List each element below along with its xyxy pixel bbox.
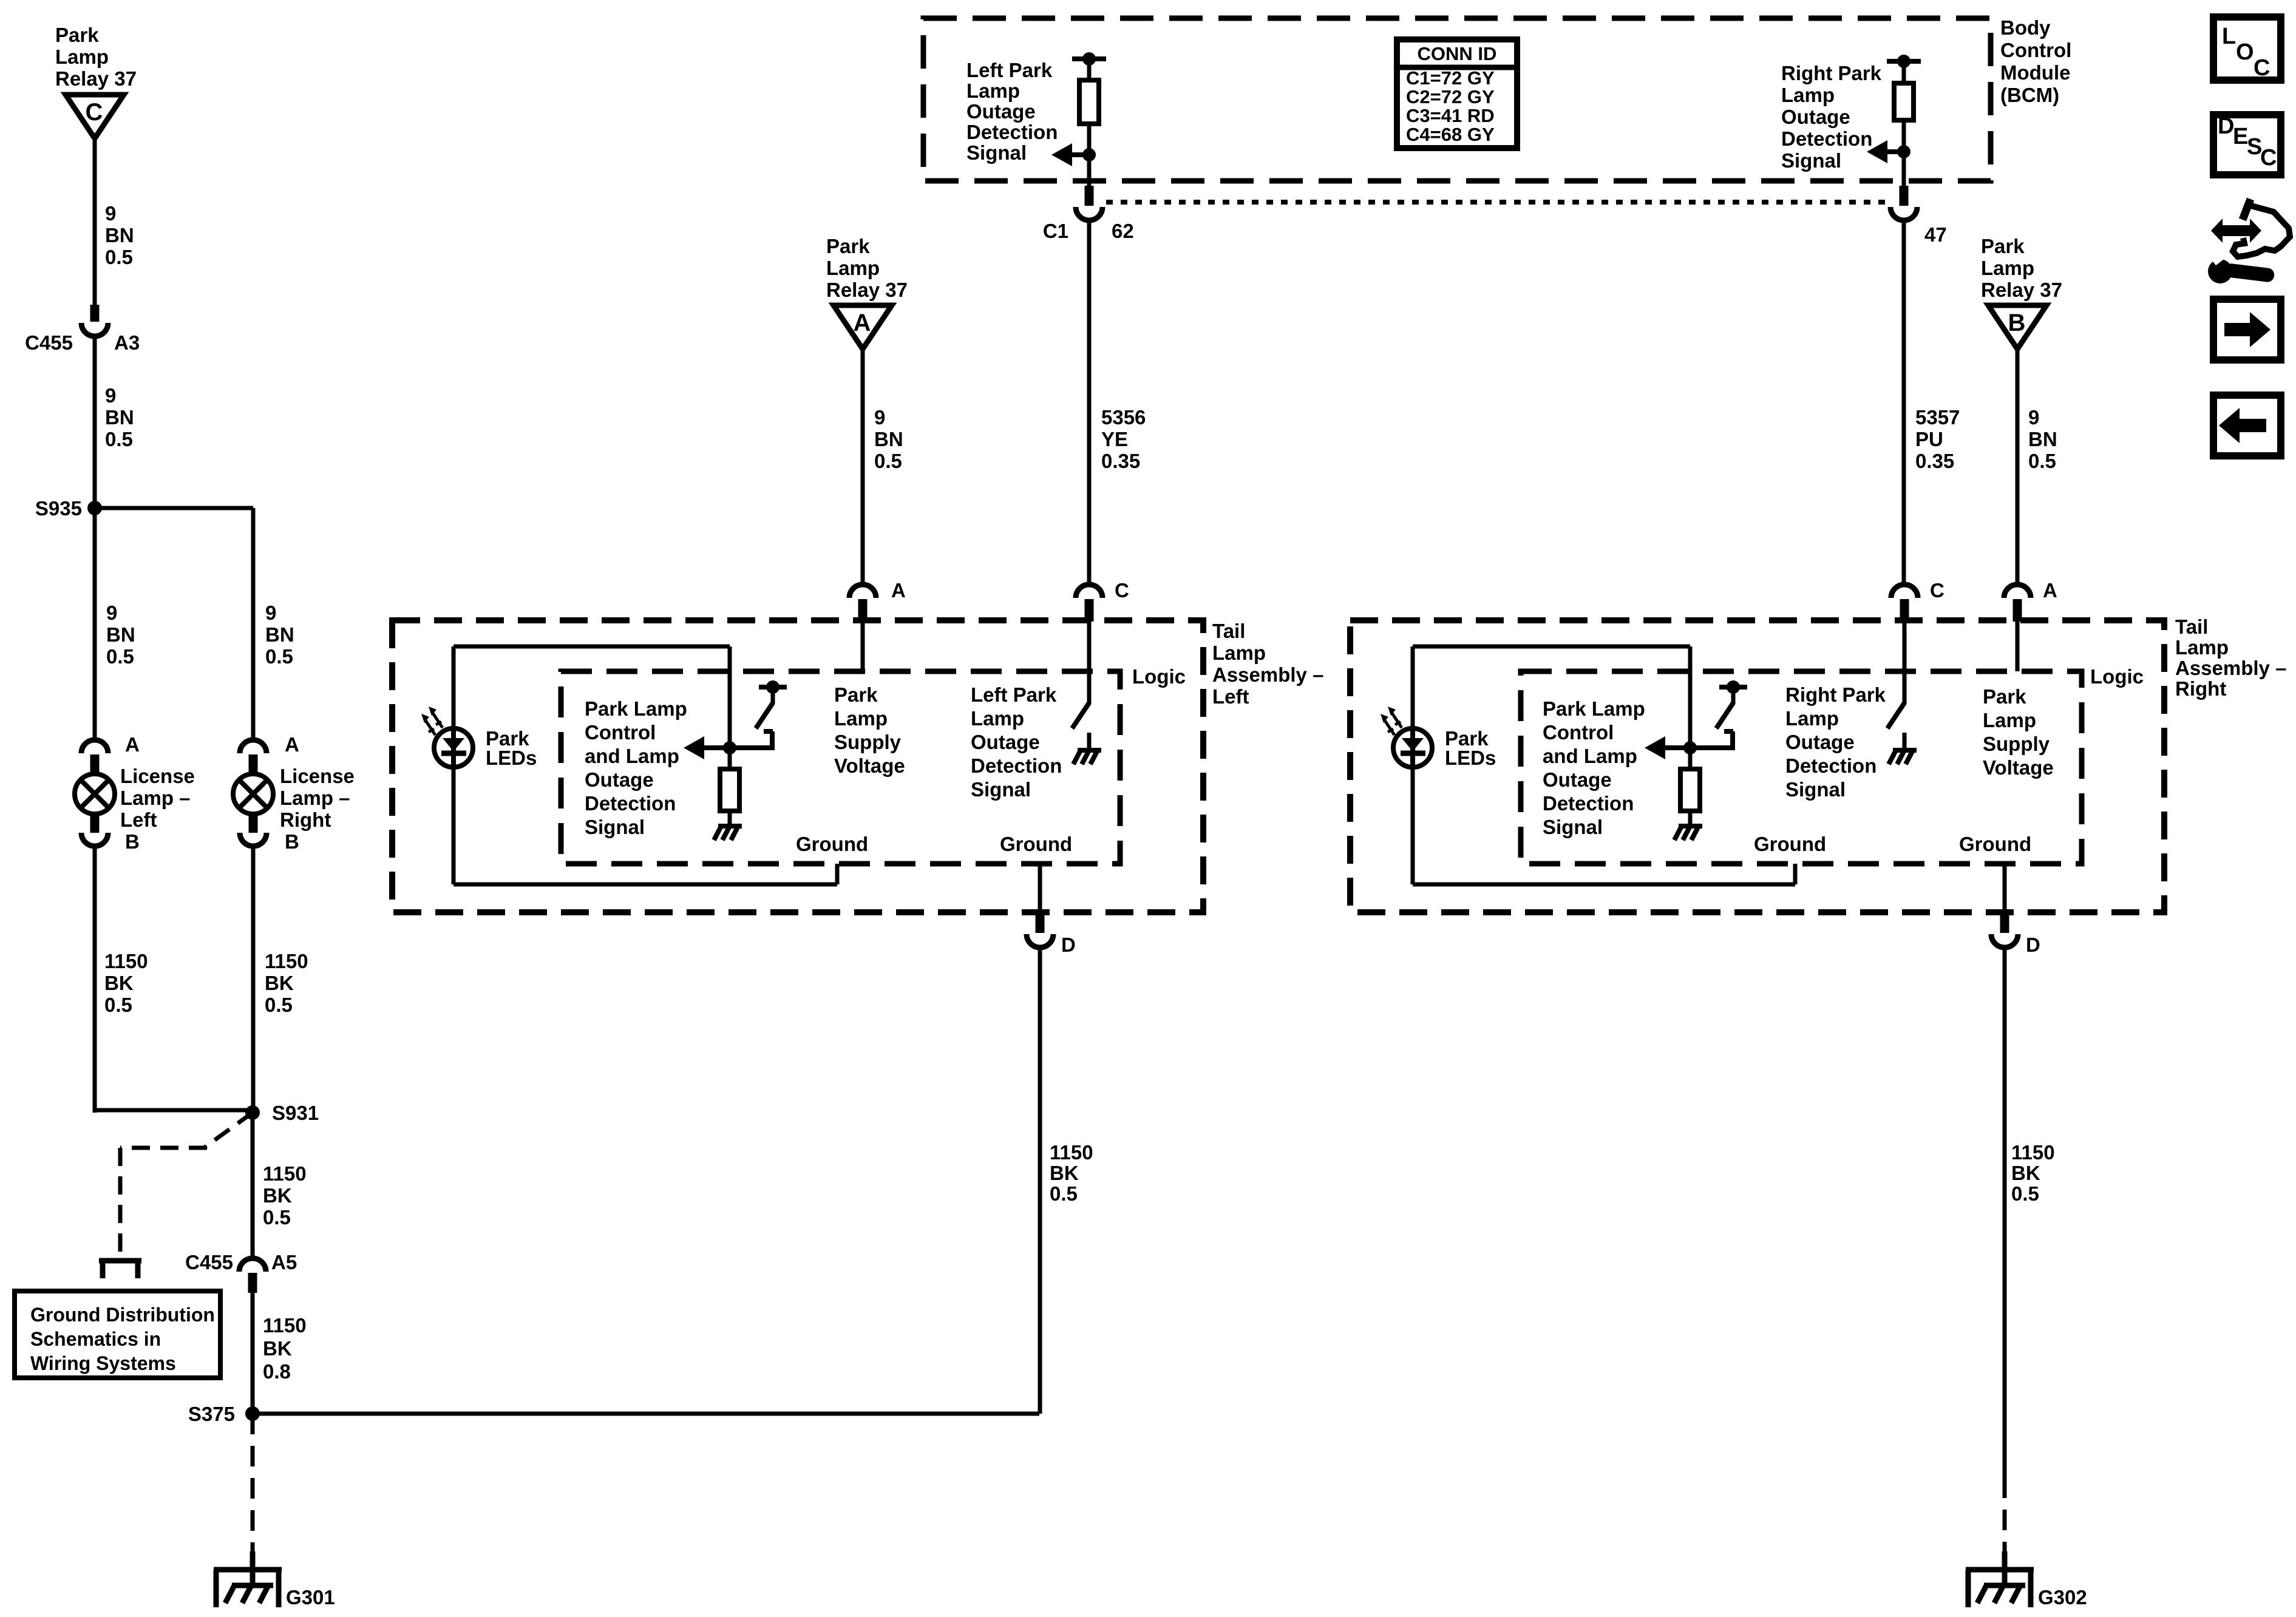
svg-text:BN: BN — [106, 623, 135, 646]
svg-text:BN: BN — [874, 428, 903, 450]
svg-text:Right: Right — [280, 808, 331, 831]
svg-text:Lamp: Lamp — [834, 707, 888, 730]
svg-text:B: B — [285, 830, 299, 853]
svg-text:Ground: Ground — [1959, 833, 2031, 855]
svg-text:Relay 37: Relay 37 — [55, 67, 137, 90]
svg-text:(BCM): (BCM) — [2000, 84, 2059, 106]
svg-text:C455: C455 — [25, 331, 73, 354]
svg-text:Left: Left — [1212, 685, 1249, 708]
svg-text:0.5: 0.5 — [2028, 450, 2056, 472]
svg-text:Control: Control — [1543, 721, 1614, 744]
svg-text:Left: Left — [120, 808, 157, 831]
svg-text:1150: 1150 — [263, 1162, 307, 1185]
svg-text:0.5: 0.5 — [104, 994, 132, 1016]
svg-text:BN: BN — [105, 406, 134, 429]
svg-text:Relay 37: Relay 37 — [826, 279, 908, 301]
svg-text:Lamp: Lamp — [826, 257, 880, 279]
svg-text:S375: S375 — [188, 1403, 235, 1425]
svg-text:A: A — [285, 733, 299, 756]
svg-text:C1: C1 — [1043, 220, 1068, 242]
svg-text:Park: Park — [1981, 235, 2025, 257]
svg-text:Logic: Logic — [1132, 665, 1186, 688]
svg-text:BK: BK — [2011, 1162, 2040, 1184]
svg-text:Control: Control — [585, 721, 656, 744]
svg-text:Lamp –: Lamp – — [280, 787, 350, 809]
svg-text:Lamp: Lamp — [1981, 257, 2034, 279]
svg-text:Outage: Outage — [971, 731, 1040, 753]
svg-text:9: 9 — [265, 602, 276, 624]
svg-text:1150: 1150 — [263, 1314, 307, 1337]
svg-text:L: L — [2222, 24, 2236, 49]
svg-text:G302: G302 — [2038, 1586, 2087, 1609]
svg-text:CONN ID: CONN ID — [1418, 43, 1497, 64]
svg-text:Left Park: Left Park — [971, 683, 1057, 706]
svg-text:Outage: Outage — [1785, 731, 1855, 753]
svg-text:Assembly –: Assembly – — [1212, 663, 1323, 686]
svg-text:5356: 5356 — [1101, 406, 1146, 429]
svg-text:Signal: Signal — [1543, 816, 1603, 838]
svg-text:Signal: Signal — [1785, 778, 1846, 801]
svg-text:C4=68 GY: C4=68 GY — [1406, 124, 1495, 145]
svg-text:Right: Right — [2175, 677, 2226, 700]
svg-text:Lamp: Lamp — [971, 707, 1024, 730]
svg-text:D: D — [1061, 934, 1076, 956]
svg-text:YE: YE — [1101, 428, 1128, 450]
svg-text:0.5: 0.5 — [1050, 1182, 1078, 1205]
svg-text:Lamp: Lamp — [966, 80, 1020, 102]
svg-text:0.35: 0.35 — [1101, 450, 1140, 472]
svg-text:1150: 1150 — [2011, 1141, 2055, 1164]
svg-text:License: License — [120, 765, 195, 787]
svg-text:E: E — [2233, 124, 2248, 149]
svg-text:C: C — [86, 99, 103, 126]
svg-text:and Lamp: and Lamp — [1543, 745, 1637, 767]
svg-text:Ground: Ground — [796, 833, 868, 855]
svg-text:0.5: 0.5 — [105, 428, 133, 450]
svg-text:Relay 37: Relay 37 — [1981, 279, 2062, 301]
svg-text:Voltage: Voltage — [834, 754, 905, 777]
svg-text:and Lamp: and Lamp — [585, 745, 679, 767]
svg-text:O: O — [2236, 39, 2254, 65]
svg-text:LEDs: LEDs — [486, 747, 537, 769]
svg-text:Detection: Detection — [1781, 127, 1872, 150]
svg-text:Ground: Ground — [1754, 833, 1826, 855]
svg-text:Signal: Signal — [585, 816, 645, 838]
svg-text:Lamp –: Lamp – — [120, 787, 191, 809]
svg-text:Lamp: Lamp — [1785, 707, 1839, 730]
svg-text:A3: A3 — [114, 331, 140, 354]
svg-text:Detection: Detection — [966, 121, 1058, 143]
svg-text:C3=41 RD: C3=41 RD — [1406, 105, 1495, 126]
svg-text:G301: G301 — [286, 1586, 335, 1609]
svg-text:Schematics in: Schematics in — [30, 1328, 161, 1350]
svg-text:Wiring Systems: Wiring Systems — [30, 1352, 176, 1374]
svg-text:A: A — [891, 579, 906, 602]
svg-text:BK: BK — [104, 972, 134, 994]
svg-text:9: 9 — [2028, 406, 2039, 429]
svg-text:BK: BK — [263, 1337, 292, 1360]
svg-text:0.5: 0.5 — [874, 450, 902, 472]
svg-text:Park: Park — [834, 683, 878, 706]
svg-text:Detection: Detection — [1785, 754, 1877, 777]
svg-text:1150: 1150 — [1050, 1141, 1093, 1164]
svg-text:S931: S931 — [272, 1102, 319, 1124]
svg-text:0.8: 0.8 — [263, 1360, 291, 1383]
svg-text:0.5: 0.5 — [265, 645, 293, 668]
svg-text:License: License — [280, 765, 355, 787]
svg-text:Park: Park — [55, 24, 99, 46]
svg-text:Left Park: Left Park — [966, 59, 1053, 81]
svg-text:Outage: Outage — [966, 100, 1036, 123]
svg-text:Signal: Signal — [971, 778, 1031, 801]
svg-text:9: 9 — [105, 384, 116, 407]
svg-text:A5: A5 — [271, 1251, 297, 1273]
svg-text:Right Park: Right Park — [1781, 62, 1882, 84]
svg-text:S935: S935 — [35, 497, 82, 520]
svg-text:BN: BN — [2028, 428, 2057, 450]
svg-text:Body: Body — [2000, 16, 2051, 39]
svg-text:Park: Park — [826, 235, 870, 257]
svg-text:Outage: Outage — [585, 768, 654, 791]
svg-text:Tail: Tail — [2175, 615, 2208, 638]
svg-text:A: A — [854, 310, 871, 336]
svg-text:C455: C455 — [185, 1251, 233, 1273]
svg-text:Supply: Supply — [834, 731, 902, 753]
svg-text:BN: BN — [265, 623, 294, 646]
svg-text:D: D — [2026, 934, 2040, 956]
svg-text:C: C — [2260, 145, 2277, 171]
svg-text:Tail: Tail — [1212, 620, 1245, 642]
svg-text:C1=72 GY: C1=72 GY — [1406, 67, 1495, 89]
svg-text:5357: 5357 — [1915, 406, 1960, 429]
svg-text:0.35: 0.35 — [1915, 450, 1954, 472]
svg-text:Detection: Detection — [971, 754, 1062, 777]
svg-text:1150: 1150 — [104, 950, 148, 972]
svg-text:Lamp: Lamp — [2175, 636, 2229, 659]
svg-text:Logic: Logic — [2090, 665, 2144, 688]
svg-text:47: 47 — [1924, 223, 1947, 246]
svg-text:C2=72 GY: C2=72 GY — [1406, 86, 1495, 107]
svg-text:Detection: Detection — [585, 792, 676, 815]
svg-text:Voltage: Voltage — [1983, 756, 2054, 779]
svg-text:D: D — [2218, 114, 2234, 139]
svg-text:0.5: 0.5 — [265, 994, 293, 1016]
svg-text:Outage: Outage — [1543, 768, 1612, 791]
svg-text:0.5: 0.5 — [106, 645, 134, 668]
svg-text:Park Lamp: Park Lamp — [1543, 697, 1645, 720]
svg-text:Ground Distribution: Ground Distribution — [30, 1304, 215, 1326]
svg-text:C: C — [1930, 579, 1944, 602]
svg-text:Control: Control — [2000, 39, 2071, 61]
svg-text:A: A — [125, 733, 140, 756]
svg-text:Outage: Outage — [1781, 106, 1850, 128]
svg-text:0.5: 0.5 — [2011, 1182, 2039, 1205]
svg-text:Lamp: Lamp — [1983, 709, 2036, 731]
svg-text:9: 9 — [874, 406, 885, 429]
svg-text:Signal: Signal — [966, 141, 1027, 164]
svg-text:BK: BK — [263, 1184, 292, 1207]
svg-text:BN: BN — [105, 224, 134, 246]
svg-text:Ground: Ground — [1000, 833, 1072, 855]
svg-text:A: A — [2043, 579, 2057, 602]
svg-text:Park: Park — [1983, 685, 2026, 708]
svg-text:9: 9 — [106, 602, 117, 624]
svg-text:PU: PU — [1915, 428, 1943, 450]
svg-text:Lamp: Lamp — [55, 46, 109, 68]
svg-text:9: 9 — [105, 202, 116, 225]
svg-text:B: B — [125, 830, 140, 853]
svg-text:1150: 1150 — [265, 950, 308, 972]
svg-text:Assembly –: Assembly – — [2175, 657, 2286, 679]
svg-text:C: C — [1115, 579, 1129, 602]
svg-text:Park Lamp: Park Lamp — [585, 697, 687, 720]
svg-text:C: C — [2254, 55, 2270, 81]
svg-text:BK: BK — [265, 972, 294, 994]
svg-text:62: 62 — [1112, 220, 1134, 242]
svg-text:Signal: Signal — [1781, 149, 1841, 172]
svg-text:Lamp: Lamp — [1212, 642, 1266, 664]
svg-text:0.5: 0.5 — [105, 246, 133, 268]
svg-text:BK: BK — [1050, 1162, 1079, 1184]
svg-text:LEDs: LEDs — [1445, 747, 1496, 769]
svg-text:Module: Module — [2000, 61, 2070, 84]
svg-text:Detection: Detection — [1543, 792, 1634, 815]
svg-text:Supply: Supply — [1983, 733, 2050, 755]
svg-text:Right Park: Right Park — [1785, 683, 1886, 706]
svg-text:B: B — [2008, 310, 2026, 336]
svg-text:Lamp: Lamp — [1781, 84, 1835, 106]
svg-text:0.5: 0.5 — [263, 1206, 291, 1229]
